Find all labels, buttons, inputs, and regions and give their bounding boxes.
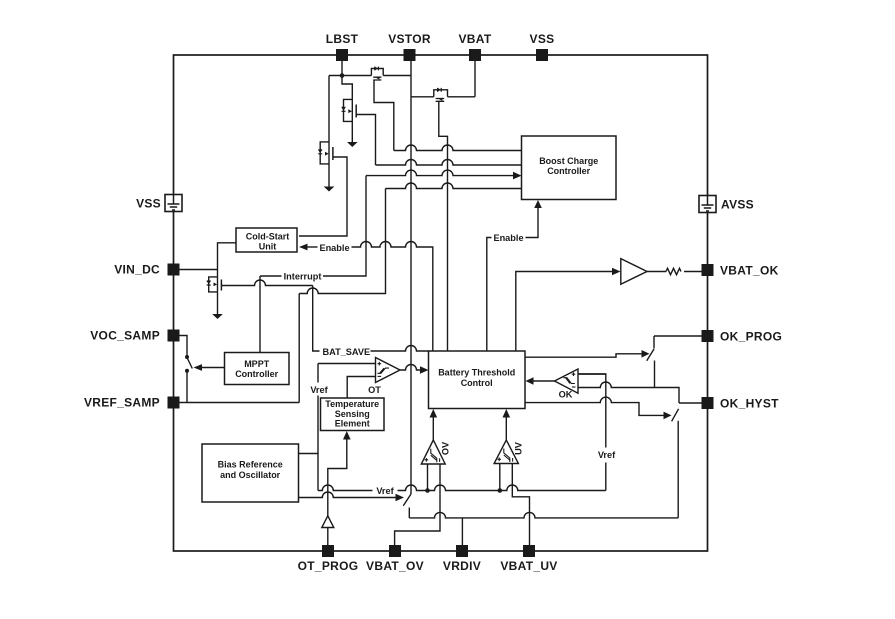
pin OK_HYST (702, 397, 780, 411)
svg-text:VRDIV: VRDIV (443, 559, 481, 573)
svg-text:BAT_SAVE: BAT_SAVE (323, 347, 371, 357)
arrow UV into BTC (503, 409, 511, 418)
switch OK_PROG blade (647, 349, 654, 361)
arrow into TSE (343, 431, 351, 440)
svg-text:OK_PROG: OK_PROG (720, 330, 782, 344)
svg-text:Element: Element (335, 419, 370, 429)
wire LBST node horizontal (329, 75, 411, 77)
wire OK_PROG pin (654, 336, 702, 349)
wire OK- input to OK_HYST node (578, 382, 679, 403)
transistor NMOS2 (cold-start FET) (318, 142, 333, 187)
pin VIN_DC (114, 263, 179, 277)
node Vref to UV+ (498, 488, 503, 493)
svg-text:VBAT_OK: VBAT_OK (720, 264, 779, 278)
arrow ctrl OK_HYST (664, 412, 672, 420)
pin VBAT (459, 32, 492, 61)
transistor PMOS pass LBST-VSTOR (371, 67, 383, 80)
wire Cold-Start left to VIN_DC (218, 243, 237, 270)
resistor VBAT_OK (666, 268, 681, 274)
node switch bottom contact (185, 369, 189, 373)
op-amp OV comparator (421, 440, 445, 464)
block Bias Reference and Oscillator (202, 444, 299, 502)
svg-text:UV: UV (514, 441, 524, 455)
op-amp OT comparator (376, 358, 401, 383)
wire Bias to divider switch (arrow) (299, 492, 397, 497)
svg-text:Vref: Vref (376, 486, 394, 496)
svg-text:OT_PROG: OT_PROG (298, 559, 359, 573)
svg-text:AVSS: AVSS (721, 198, 754, 212)
pin VSTOR (388, 32, 431, 61)
pin VRDIV (443, 545, 481, 573)
ground arrow under NMOS1 (347, 142, 358, 147)
block MPPT Controller (225, 353, 290, 385)
block Cold-Start Unit (236, 228, 297, 252)
svg-text:VSS: VSS (136, 197, 161, 211)
wire OK_PROG switch bottom (654, 361, 656, 388)
wire OT_PROG stub (327, 528, 329, 546)
svg-text:OK_HYST: OK_HYST (720, 397, 779, 411)
svg-text:Control: Control (461, 378, 493, 388)
op-amp UV comparator (494, 440, 518, 464)
svg-text:Unit: Unit (259, 242, 277, 252)
wire Vref bus horizontal (318, 485, 606, 490)
wire NMOS2 gate to Cold-Start Unit (299, 157, 347, 236)
op-amp VBAT_OK buffer (621, 259, 647, 285)
wire boost input 1 (394, 145, 522, 150)
wire OK output to BTC (533, 380, 555, 382)
block Battery Threshold Control (429, 351, 526, 409)
transistor PMOS input (VIN_DC) (207, 270, 222, 315)
wire boost input 4 (386, 183, 522, 189)
arrow OK into BTC (526, 377, 534, 385)
wire BAT_SAVE riser and label run (313, 286, 320, 352)
wire VREF_SAMP pin line (180, 402, 300, 404)
arrow MPPT to switch (201, 367, 225, 369)
wire BTC ctrl to OK_HYST switch (526, 397, 665, 415)
transistor NMOS1 (LBST switching FET) (342, 76, 357, 143)
pin VSS top (530, 32, 555, 61)
wire OT output to BTC (400, 365, 421, 371)
wire VSTOR to PMOS2 / PMOS2 to VBAT (411, 96, 475, 98)
wire OV output to BTC (432, 417, 434, 441)
chip outline border (174, 55, 708, 551)
wire Enable riser BTC to Boost (487, 207, 538, 352)
wire LBST to lower NMOS drain (328, 76, 330, 142)
wire VIN_DC pin (180, 269, 218, 271)
svg-text:VBAT_OV: VBAT_OV (366, 559, 424, 573)
wire boost input 2 (376, 160, 522, 166)
pin AVSS right ground-box (699, 196, 754, 213)
node switch top contact (185, 355, 189, 359)
arrow ctrl OK_PROG (642, 350, 650, 358)
wire OV- to VBAT_OV (395, 464, 440, 545)
svg-text:Enable: Enable (493, 233, 523, 243)
transistor PMOS pass VSTOR-VBAT (434, 88, 448, 101)
svg-text:OV: OV (441, 441, 451, 455)
svg-text:MPPT: MPPT (244, 359, 270, 369)
symbol OT_PROG open triangle (322, 516, 334, 528)
arrow OV into BTC (430, 409, 438, 418)
wire OK_HYST switch bottom to divider rail (677, 421, 679, 518)
arrow Enable into Boost bottom (534, 200, 542, 208)
ground arrow under NMOS2 (324, 187, 335, 192)
wire boost input 3 (interrupt, arrow) (366, 170, 514, 176)
pin VBAT_OK (702, 264, 779, 278)
pin VOC_SAMP (90, 329, 179, 343)
node LBST junction dot (340, 73, 345, 78)
wire resistor to VBAT_OK pin (684, 271, 702, 273)
svg-text:Boost Charge: Boost Charge (539, 156, 598, 166)
arrow OT into BTC (420, 366, 429, 374)
ground arrow under input PMOS (212, 314, 223, 319)
op-amp OK comparator (points left) (555, 369, 579, 393)
svg-text:VBAT_UV: VBAT_UV (500, 559, 557, 573)
switch divider (VSTOR to resistor ladder) blade (403, 494, 411, 506)
wire NMOS1 gate to boost wire2 (356, 115, 375, 166)
pin VBAT_UV (500, 545, 557, 573)
svg-text:VSTOR: VSTOR (388, 32, 431, 46)
arrow Bias wire to switch (396, 494, 405, 502)
wire VOC_SAMP pin to switch (180, 336, 188, 356)
node Vref to OV+ (425, 488, 430, 493)
svg-text:and Oscillator: and Oscillator (220, 470, 281, 480)
svg-text:Sensing: Sensing (335, 409, 370, 419)
pin LBST (326, 32, 359, 61)
svg-text:Vref: Vref (310, 385, 328, 395)
wire BAT_SAVE gate wire (221, 280, 312, 286)
svg-text:VBAT: VBAT (459, 32, 492, 46)
wire VSTOR rail vertical (410, 61, 412, 494)
wire buffer to resistor (647, 271, 666, 273)
wire divider bottom rail (409, 512, 678, 518)
wire BTC ctrl to OK_PROG switch (526, 354, 643, 357)
svg-text:Interrupt: Interrupt (284, 272, 322, 282)
svg-text:VIN_DC: VIN_DC (114, 263, 160, 277)
wire OT- input from TSE (347, 377, 375, 399)
svg-text:Bias Reference: Bias Reference (218, 459, 283, 469)
arrow into buffer (612, 268, 621, 276)
block Temperature Sensing Element (321, 398, 385, 431)
wire LBST pin stub (341, 61, 343, 76)
svg-text:VREF_SAMP: VREF_SAMP (84, 396, 160, 410)
wire PMOS2 gate riser to Battery Threshold Control top (439, 101, 448, 351)
svg-text:VSS: VSS (530, 32, 555, 46)
wire switch bottom stub (408, 508, 410, 518)
wire OK_HYST pin (679, 402, 702, 404)
wire OT+ input from Vref line (318, 363, 376, 365)
wire OV+ to Vref bus (427, 464, 429, 491)
svg-text:OT: OT (368, 385, 381, 395)
svg-text:Controller: Controller (235, 369, 278, 379)
wire arrow into TSE bottom (328, 438, 347, 517)
wire UV output to BTC (505, 417, 507, 441)
wire Bias to Vref line (299, 453, 319, 455)
svg-text:Temperature: Temperature (325, 399, 379, 409)
wire VREF_SAMP riser to boost wire4 (299, 189, 385, 403)
pin OT_PROG (298, 545, 359, 573)
wire UV- to VBAT_UV (512, 464, 529, 546)
wire VBAT pin stub (474, 61, 476, 97)
svg-text:Vref: Vref (598, 450, 616, 460)
block Boost Charge Controller (522, 136, 617, 200)
svg-text:Battery Threshold: Battery Threshold (438, 368, 515, 378)
svg-text:VOC_SAMP: VOC_SAMP (90, 329, 160, 343)
svg-text:LBST: LBST (326, 32, 359, 46)
switch MPPT sampling blade (188, 359, 193, 369)
pin VREF_SAMP (84, 396, 180, 410)
wire switch to VREF_SAMP line (186, 372, 188, 403)
wire BTC to VBAT_OK buffer (516, 272, 613, 352)
svg-text:Cold-Start: Cold-Start (246, 231, 290, 241)
wire Enable from BTC to Cold-Start (308, 246, 318, 248)
pin VSS left ground-box (136, 195, 182, 212)
wire OK+ input (578, 373, 606, 375)
wire VRDIV riser (461, 518, 463, 545)
wire OK+ riser (579, 374, 606, 491)
svg-text:OK: OK (559, 390, 573, 400)
switch OK_HYST blade (672, 409, 679, 422)
svg-text:Controller: Controller (547, 166, 590, 176)
wire Vref vertical line (317, 364, 319, 491)
wire Interrupt (260, 275, 282, 277)
wire PMOS1 gate to boost wire1 (374, 80, 394, 151)
arrow Enable into Cold-Start (299, 244, 308, 251)
wire UV+ to Vref bus (499, 464, 501, 491)
pin VBAT_OV (366, 545, 424, 573)
pin OK_PROG (702, 330, 783, 344)
svg-text:Enable: Enable (319, 243, 349, 253)
